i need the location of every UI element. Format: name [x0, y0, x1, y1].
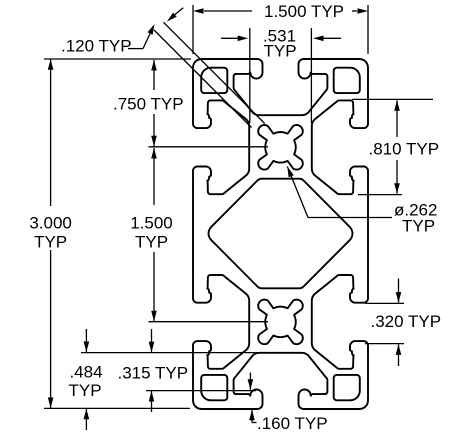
- svg-text:TYP: TYP: [135, 233, 168, 252]
- svg-text:.484: .484: [69, 363, 102, 382]
- svg-text:TYP: TYP: [402, 217, 435, 236]
- svg-text:1.500 TYP: 1.500 TYP: [264, 2, 344, 21]
- svg-text:.120 TYP: .120 TYP: [61, 37, 132, 56]
- svg-text:TYP: TYP: [68, 381, 101, 400]
- svg-text:TYP: TYP: [263, 42, 296, 61]
- svg-text:1.500: 1.500: [130, 214, 173, 233]
- svg-text:.320 TYP: .320 TYP: [371, 312, 442, 331]
- svg-text:.160 TYP: .160 TYP: [257, 414, 328, 433]
- svg-text:.750 TYP: .750 TYP: [113, 95, 184, 114]
- svg-text:3.000: 3.000: [29, 214, 72, 233]
- svg-text:.810 TYP: .810 TYP: [369, 140, 440, 159]
- svg-text:TYP: TYP: [34, 233, 67, 252]
- svg-text:.315 TYP: .315 TYP: [118, 364, 189, 383]
